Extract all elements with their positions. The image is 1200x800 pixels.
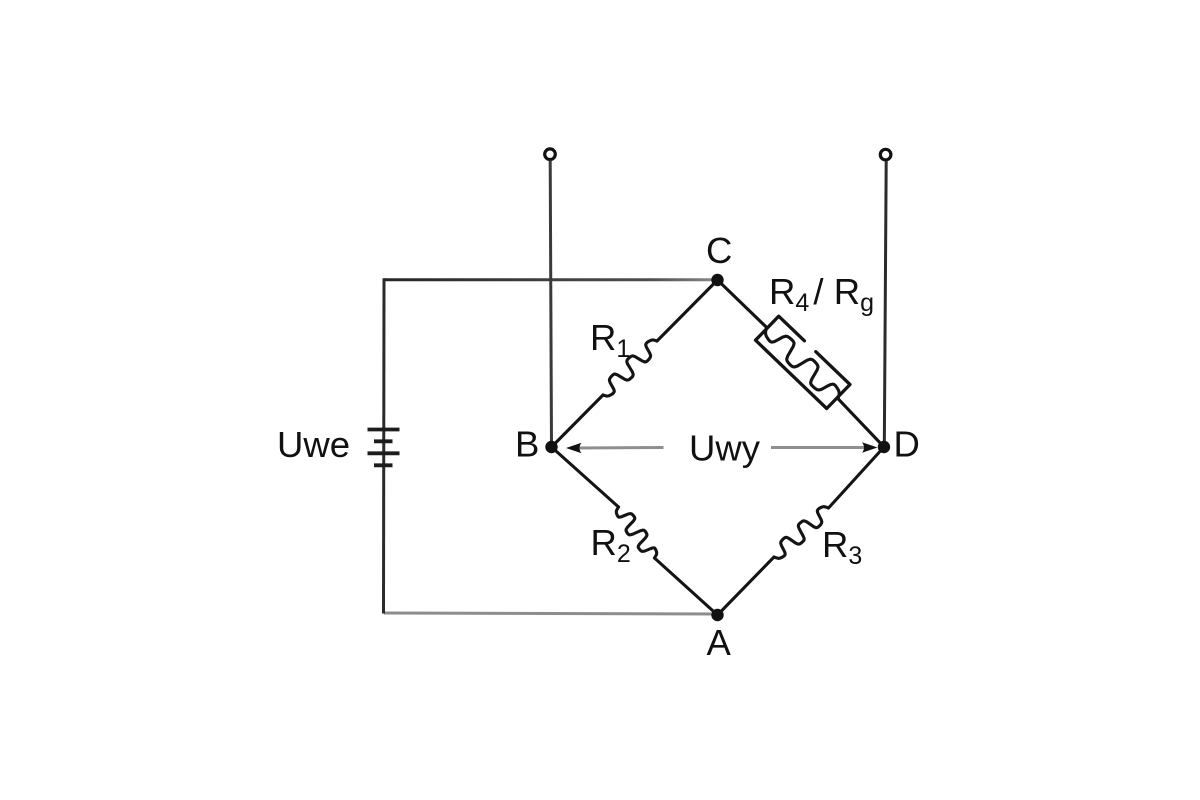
resistor R4/Rg internal squiggle [766, 328, 840, 399]
wire R4 box to node D [838, 399, 884, 447]
svg-text:A: A [707, 622, 732, 663]
resistor R4/Rg box outline [756, 316, 851, 408]
wire terminal-left to node B [550, 161, 551, 447]
node D [878, 441, 890, 453]
svg-text:Uwy: Uwy [689, 428, 761, 469]
wire bottom: battery bottom to node A [384, 613, 718, 614]
svg-text:C: C [706, 230, 732, 271]
battery Uwe (4 plates) [368, 430, 400, 466]
terminal circle left [545, 149, 556, 160]
svg-text:D: D [894, 424, 920, 465]
wire terminal-right to node D [884, 161, 886, 447]
node B [545, 441, 557, 453]
svg-text:R4 / Rg: R4 / Rg [769, 271, 874, 317]
wire C to R4 box [718, 280, 767, 328]
resistor R3 (edge A-D) [718, 447, 885, 615]
svg-text:B: B [515, 424, 539, 465]
terminal circle right [880, 149, 891, 160]
node C [711, 274, 723, 286]
resistor R1 (edge B-C) [552, 280, 718, 447]
resistor R2 (edge B-A) [552, 447, 718, 615]
arrow Uwy left (toward B) [566, 443, 664, 454]
wire battery branch vertical [382, 278, 386, 613]
arrow Uwy right (toward D) [771, 442, 878, 453]
svg-text:R1: R1 [590, 317, 630, 363]
svg-text:Uwe: Uwe [277, 424, 350, 465]
wire top: battery top to node C [384, 278, 718, 281]
svg-text:R3: R3 [822, 524, 862, 570]
node A [711, 609, 723, 621]
